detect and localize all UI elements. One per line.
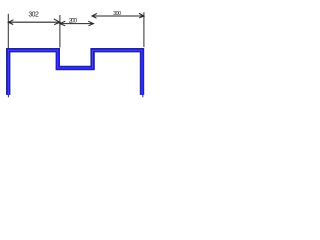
svg-text:302: 302: [28, 12, 39, 19]
svg-text:200: 200: [69, 18, 78, 25]
svg-text:300: 300: [113, 11, 121, 17]
